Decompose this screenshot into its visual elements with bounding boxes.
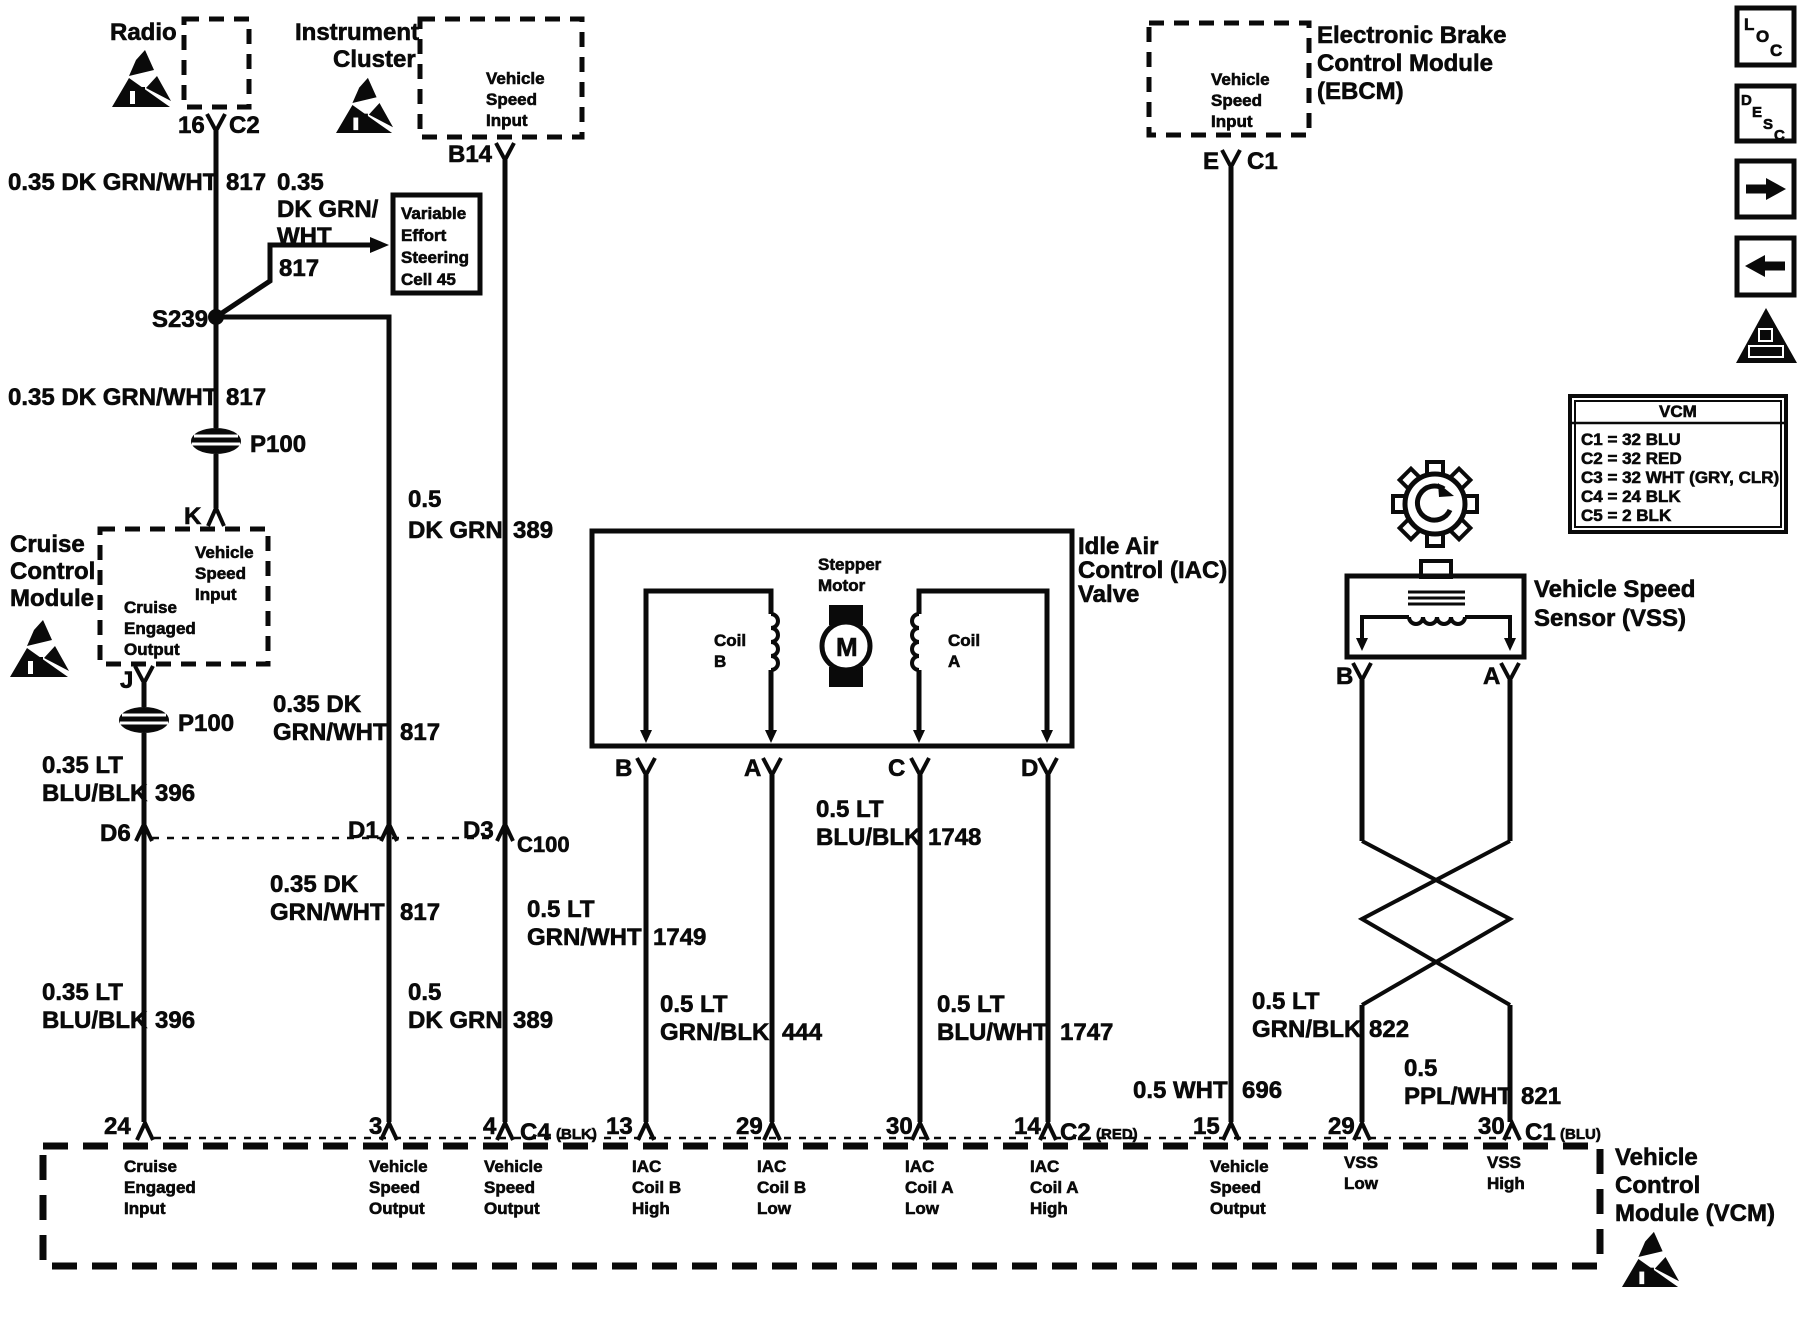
connector P100 (upper): [191, 428, 241, 454]
svg-text:Control: Control: [1615, 1172, 1700, 1199]
svg-text:Vehicle: Vehicle: [1211, 70, 1270, 89]
svg-text:C: C: [1774, 127, 1785, 144]
svg-text:1748: 1748: [928, 824, 981, 851]
svg-text:Speed: Speed: [195, 564, 246, 583]
svg-text:S239: S239: [152, 306, 208, 333]
wire 822 to pin 29: [1360, 1005, 1365, 1122]
svg-text:Output: Output: [1210, 1199, 1266, 1218]
svg-text:Cruise: Cruise: [124, 1157, 177, 1176]
svg-text:Output: Output: [484, 1199, 540, 1218]
wire 821 to pin 30: [1508, 1005, 1513, 1122]
ESD symbol (VCM): [1622, 1232, 1679, 1287]
svg-text:16: 16: [178, 112, 205, 139]
svg-text:0.5 LT: 0.5 LT: [937, 991, 1005, 1018]
svg-text:0.5 LT: 0.5 LT: [527, 896, 595, 923]
svg-text:(BLU): (BLU): [1560, 1126, 1601, 1143]
svg-text:Idle Air: Idle Air: [1078, 533, 1158, 560]
svg-text:Coil: Coil: [714, 631, 746, 650]
svg-text:C4 = 24 BLK: C4 = 24 BLK: [1581, 487, 1681, 506]
wire branch S239 to VES arrow: [216, 245, 374, 317]
svg-text:M: M: [836, 632, 858, 662]
svg-text:O: O: [1756, 27, 1769, 46]
svg-text:C2: C2: [229, 112, 260, 139]
svg-text:Input: Input: [486, 111, 528, 130]
svg-text:Steering: Steering: [401, 248, 469, 267]
svg-text:15: 15: [1193, 1113, 1220, 1140]
pin B14 terminal: [496, 143, 514, 160]
svg-text:BLU/BLK: BLU/BLK: [42, 780, 148, 807]
svg-text:Speed: Speed: [484, 1178, 535, 1197]
svg-text:GRN/BLK: GRN/BLK: [660, 1019, 770, 1046]
svg-text:444: 444: [782, 1019, 823, 1046]
svg-text:C1 = 32 BLU: C1 = 32 BLU: [1581, 430, 1681, 449]
svg-text:VSS: VSS: [1344, 1153, 1378, 1172]
svg-text:C1: C1: [1525, 1119, 1556, 1146]
svg-text:Coil A: Coil A: [905, 1178, 953, 1197]
svg-text:Low: Low: [1344, 1174, 1379, 1193]
svg-text:Cell 45: Cell 45: [401, 270, 456, 289]
svg-text:(EBCM): (EBCM): [1317, 78, 1404, 105]
wire 696 E to pin 15: [1229, 167, 1234, 1122]
nav icon DESC: [1737, 86, 1794, 144]
svg-text:VCM: VCM: [1659, 402, 1697, 421]
svg-text:GRN/WHT: GRN/WHT: [270, 899, 385, 926]
wire 817 C2 to P100: [214, 131, 219, 428]
wire 817 S239 to riser: [216, 317, 389, 1122]
svg-text:P100: P100: [178, 710, 234, 737]
svg-text:B14: B14: [448, 141, 493, 168]
svg-text:J: J: [120, 667, 133, 694]
svg-text:4: 4: [483, 1113, 497, 1140]
svg-text:0.5 WHT: 0.5 WHT: [1133, 1077, 1228, 1104]
ESD symbol (Radio): [112, 50, 171, 107]
svg-text:GRN/WHT: GRN/WHT: [273, 719, 388, 746]
svg-text:IAC: IAC: [905, 1157, 934, 1176]
stepper motor M: [822, 605, 870, 687]
svg-text:IAC: IAC: [1030, 1157, 1059, 1176]
svg-text:Module: Module: [10, 585, 94, 612]
svg-text:E: E: [1203, 148, 1219, 175]
Cruise Control Module box (dashed): [100, 529, 268, 664]
svg-text:High: High: [632, 1199, 670, 1218]
svg-text:Control: Control: [10, 558, 95, 585]
svg-text:0.5 LT: 0.5 LT: [660, 991, 728, 1018]
svg-text:GRN/WHT: GRN/WHT: [527, 924, 642, 951]
svg-text:Output: Output: [124, 640, 180, 659]
nav icon triangle: [1736, 308, 1797, 363]
VCM pin row dashed line: [154, 1137, 1512, 1140]
svg-text:13: 13: [606, 1113, 633, 1140]
svg-text:389: 389: [513, 1007, 553, 1034]
svg-text:VSS: VSS: [1487, 1153, 1521, 1172]
ESD symbol (Instrument Cluster): [336, 78, 393, 133]
svg-text:30: 30: [1478, 1113, 1505, 1140]
coil A arrows: [913, 730, 925, 743]
svg-text:Coil B: Coil B: [757, 1178, 806, 1197]
coil A winding circuit: [919, 591, 1047, 733]
svg-text:GRN/BLK: GRN/BLK: [1252, 1016, 1362, 1043]
svg-text:29: 29: [736, 1113, 763, 1140]
connector P100 (lower): [119, 707, 169, 733]
wire 821 VSS A down: [1508, 680, 1513, 841]
svg-text:Vehicle: Vehicle: [486, 69, 545, 88]
svg-text:0.5: 0.5: [1404, 1055, 1437, 1082]
nav icon left arrow: [1737, 238, 1794, 295]
Variable Effort Steering cell box: [393, 195, 480, 293]
svg-text:B: B: [615, 755, 632, 782]
VSS core bars: [1408, 591, 1465, 594]
coil B arrows: [640, 730, 652, 743]
svg-text:Vehicle: Vehicle: [195, 543, 254, 562]
svg-text:Output: Output: [369, 1199, 425, 1218]
svg-text:Stepper: Stepper: [818, 555, 882, 574]
Radio connector box (dashed): [184, 19, 249, 107]
svg-text:Vehicle Speed: Vehicle Speed: [1534, 576, 1695, 603]
svg-text:C2 = 32 RED: C2 = 32 RED: [1581, 449, 1682, 468]
pin K terminal: [208, 508, 224, 526]
svg-text:BLU/WHT: BLU/WHT: [937, 1019, 1048, 1046]
svg-text:Engaged: Engaged: [124, 1178, 196, 1197]
svg-text:Vehicle: Vehicle: [484, 1157, 543, 1176]
svg-text:0.35 LT: 0.35 LT: [42, 752, 123, 779]
svg-text:C2: C2: [1060, 1119, 1091, 1146]
svg-text:Cluster: Cluster: [333, 46, 416, 73]
svg-text:(BLK): (BLK): [556, 1126, 597, 1143]
svg-text:DK GRN: DK GRN: [408, 517, 503, 544]
svg-text:C5 = 2 BLK: C5 = 2 BLK: [1581, 506, 1672, 525]
svg-text:K: K: [184, 503, 202, 530]
wire 1748 IAC C to pin 30: [918, 775, 923, 1122]
svg-text:Input: Input: [1211, 112, 1253, 131]
svg-text:Instrument: Instrument: [295, 19, 419, 46]
svg-text:Effort: Effort: [401, 226, 447, 245]
svg-text:1749: 1749: [653, 924, 706, 951]
svg-text:Motor: Motor: [818, 576, 866, 595]
svg-text:14: 14: [1014, 1113, 1041, 1140]
svg-text:B: B: [714, 652, 726, 671]
svg-text:Cruise: Cruise: [10, 531, 85, 558]
svg-text:Low: Low: [905, 1199, 940, 1218]
VSS pickup coil: [1409, 617, 1465, 624]
svg-text:(RED): (RED): [1096, 1126, 1138, 1143]
svg-text:High: High: [1487, 1174, 1525, 1193]
svg-text:0.35 LT: 0.35 LT: [42, 979, 123, 1006]
svg-text:Radio: Radio: [110, 19, 177, 46]
twisted pair crossover: [1362, 841, 1510, 1005]
IAC valve box: [592, 531, 1072, 746]
svg-text:Speed: Speed: [486, 90, 537, 109]
wire 1747 IAC D to pin 14: [1046, 775, 1051, 1122]
svg-text:Coil B: Coil B: [632, 1178, 681, 1197]
svg-text:P100: P100: [250, 431, 306, 458]
svg-text:817: 817: [400, 719, 440, 746]
VSS internal wires with arrows: [1362, 617, 1409, 640]
svg-text:396: 396: [155, 1007, 195, 1034]
svg-text:1747: 1747: [1060, 1019, 1113, 1046]
VCM module box (dashed): [43, 1146, 1600, 1266]
svg-text:D6: D6: [100, 820, 131, 847]
svg-text:DK GRN/: DK GRN/: [277, 196, 379, 223]
wire 444 IAC A to pin 29: [770, 775, 775, 1122]
svg-text:L: L: [1744, 15, 1754, 34]
svg-text:High: High: [1030, 1199, 1068, 1218]
svg-text:IAC: IAC: [632, 1157, 661, 1176]
svg-text:3: 3: [369, 1113, 382, 1140]
svg-text:D1: D1: [348, 817, 379, 844]
svg-text:C100: C100: [517, 832, 570, 857]
svg-text:IAC: IAC: [757, 1157, 786, 1176]
svg-text:Speed: Speed: [1210, 1178, 1261, 1197]
svg-text:0.35 DK: 0.35 DK: [270, 871, 359, 898]
svg-text:C4: C4: [520, 1119, 551, 1146]
svg-text:Variable: Variable: [401, 204, 466, 223]
svg-text:D: D: [1021, 755, 1038, 782]
svg-text:0.35 DK GRN/WHT: 0.35 DK GRN/WHT: [8, 169, 218, 196]
pin J terminal: [135, 666, 153, 683]
svg-text:0.35: 0.35: [277, 169, 324, 196]
svg-text:C3 = 32 WHT (GRY, CLR): C3 = 32 WHT (GRY, CLR): [1581, 468, 1779, 487]
VSS reluctor gear icon: [1393, 462, 1477, 546]
svg-text:Engaged: Engaged: [124, 619, 196, 638]
svg-text:A: A: [744, 755, 761, 782]
svg-text:BLU/BLK: BLU/BLK: [42, 1007, 148, 1034]
wire 1749 IAC B to pin 13: [644, 775, 649, 1122]
svg-text:0.5: 0.5: [408, 979, 441, 1006]
svg-text:0.35 DK: 0.35 DK: [273, 691, 362, 718]
wire 389 B14 down to pin 4: [503, 160, 508, 1122]
C100 dashed connector line: [152, 837, 500, 840]
svg-text:Low: Low: [757, 1199, 792, 1218]
svg-text:817: 817: [226, 384, 266, 411]
nav icon right arrow: [1737, 161, 1794, 217]
VSS body: [1421, 561, 1451, 577]
svg-text:0.35 DK GRN/WHT: 0.35 DK GRN/WHT: [8, 384, 218, 411]
svg-text:Speed: Speed: [1211, 91, 1262, 110]
splice S239 dot: [208, 309, 224, 325]
svg-text:B: B: [1336, 663, 1353, 690]
svg-text:Coil A: Coil A: [1030, 1178, 1078, 1197]
svg-text:817: 817: [279, 255, 319, 282]
nav icon LOC: [1737, 8, 1794, 65]
svg-text:Control (IAC): Control (IAC): [1078, 557, 1227, 584]
svg-text:C1: C1: [1247, 148, 1278, 175]
VCM connector table: [1570, 396, 1786, 532]
svg-text:Sensor (VSS): Sensor (VSS): [1534, 605, 1686, 632]
svg-text:Vehicle: Vehicle: [1210, 1157, 1269, 1176]
svg-text:24: 24: [104, 1113, 131, 1140]
svg-text:S: S: [1763, 116, 1773, 133]
svg-text:396: 396: [155, 780, 195, 807]
svg-text:817: 817: [400, 899, 440, 926]
svg-text:Control Module: Control Module: [1317, 50, 1493, 77]
svg-text:C: C: [1770, 41, 1782, 60]
svg-text:Cruise: Cruise: [124, 598, 177, 617]
svg-text:0.5 LT: 0.5 LT: [816, 796, 884, 823]
arrowhead to VES: [370, 237, 389, 253]
wire 396 P100 to pin 24: [142, 733, 147, 1122]
Instrument Cluster Vehicle Speed Input box (dashed): [420, 19, 582, 137]
svg-text:DK GRN: DK GRN: [408, 1007, 503, 1034]
svg-text:D: D: [1741, 92, 1752, 109]
svg-text:821: 821: [1521, 1083, 1561, 1110]
svg-text:E: E: [1752, 104, 1762, 121]
EBCM Vehicle Speed Input box (dashed): [1149, 23, 1309, 135]
svg-text:29: 29: [1328, 1113, 1355, 1140]
svg-text:0.5 LT: 0.5 LT: [1252, 988, 1320, 1015]
coil B winding circuit: [646, 591, 771, 733]
svg-text:Module (VCM): Module (VCM): [1615, 1200, 1775, 1227]
svg-text:Vehicle: Vehicle: [1615, 1144, 1698, 1171]
wire 822 VSS B down: [1360, 680, 1365, 841]
svg-text:817: 817: [226, 169, 266, 196]
svg-text:0.5: 0.5: [408, 486, 441, 513]
pin E terminal: [1222, 150, 1240, 167]
svg-text:389: 389: [513, 517, 553, 544]
svg-text:Valve: Valve: [1078, 581, 1139, 608]
svg-text:822: 822: [1369, 1016, 1409, 1043]
ESD symbol (Cruise Control Module): [10, 620, 69, 677]
svg-text:Coil: Coil: [948, 631, 980, 650]
svg-text:696: 696: [1242, 1077, 1282, 1104]
wire 817 P100 to K: [214, 454, 219, 508]
svg-text:D3: D3: [463, 817, 494, 844]
svg-text:30: 30: [886, 1113, 913, 1140]
svg-text:Input: Input: [124, 1199, 166, 1218]
svg-text:Electronic Brake: Electronic Brake: [1317, 22, 1506, 49]
svg-text:A: A: [1483, 663, 1500, 690]
wire 396 J to P100: [142, 683, 147, 707]
svg-text:BLU/BLK: BLU/BLK: [816, 824, 922, 851]
svg-text:PPL/WHT: PPL/WHT: [1404, 1083, 1512, 1110]
svg-text:Vehicle: Vehicle: [369, 1157, 428, 1176]
svg-text:A: A: [948, 652, 960, 671]
svg-text:Speed: Speed: [369, 1178, 420, 1197]
svg-text:Input: Input: [195, 585, 237, 604]
pin C2 terminal: [207, 114, 225, 131]
svg-text:C: C: [888, 755, 905, 782]
